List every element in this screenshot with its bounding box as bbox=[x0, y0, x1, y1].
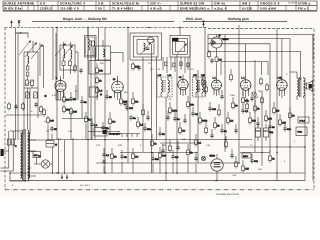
wire: V5 screen drop bbox=[261, 62, 263, 75]
volume potentiometer (black, boxed) bbox=[94, 128, 120, 137]
resistor R-lt3 bbox=[40, 105, 43, 114]
fuse Si1 bbox=[46, 141, 58, 148]
tube V1 ECH81 bbox=[55, 77, 66, 93]
wire: miscellaneous interconnects bbox=[56, 48, 290, 164]
FM tuner inner coil bbox=[144, 43, 146, 51]
V2 cathode network box bbox=[89, 87, 98, 97]
wire: speaker return bbox=[304, 95, 306, 181]
resistor R12 bbox=[132, 97, 139, 106]
wire: gang frame drop 3 bbox=[156, 57, 158, 140]
svg-text:230 V~: 230 V~ bbox=[150, 2, 162, 6]
resistor R41 bbox=[230, 73, 233, 82]
resistor R20 bbox=[214, 121, 221, 130]
wire: choke leads bbox=[103, 40, 123, 62]
title block extra bottom rule bbox=[3, 11, 317, 13]
mains switch box bbox=[296, 127, 307, 136]
svg-text:6 K: 6 K bbox=[40, 2, 46, 6]
chassis boundary dashed frame right side bbox=[313, 29, 315, 190]
svg-text:100: 100 bbox=[50, 119, 55, 122]
tube V2 EF89 bbox=[112, 78, 124, 94]
wire: AF return bbox=[96, 162, 239, 164]
svg-text:110-240 V 9: 110-240 V 9 bbox=[60, 7, 79, 11]
resistor R46 bbox=[205, 126, 208, 135]
capacitor C31 bbox=[102, 159, 105, 165]
svg-text:1M: 1M bbox=[218, 58, 221, 61]
wire: ratio det line bbox=[189, 41, 191, 152]
resistor R43 bbox=[169, 144, 172, 153]
wire: screen bus bbox=[47, 139, 252, 141]
dial lamp La1 bbox=[34, 155, 53, 169]
tube V6 EL84 bbox=[277, 76, 288, 91]
subtitle left: wave-band position note bbox=[63, 17, 107, 21]
resistor R47 bbox=[225, 140, 228, 149]
svg-text:220: 220 bbox=[252, 119, 257, 122]
capacitor C37 bbox=[234, 128, 237, 134]
capacitor C20 bbox=[220, 128, 227, 134]
dial assembly outline 2 bbox=[208, 39, 290, 60]
RF coil unit enclosure bbox=[85, 36, 97, 58]
wire: IF2 drop bbox=[176, 55, 178, 173]
capacitor C13 bbox=[123, 101, 126, 107]
voltage selector bbox=[33, 152, 41, 158]
capacitor C24 bbox=[283, 126, 291, 132]
mains suppression capacitor Ca bbox=[7, 131, 10, 168]
capacitor C-em bbox=[210, 58, 213, 64]
svg-text:1M: 1M bbox=[135, 155, 138, 158]
wire: gang frame drop 1 bbox=[142, 57, 144, 152]
pilot lamp La2 bbox=[201, 156, 205, 160]
svg-text:4 W a 1: 4 W a 1 bbox=[150, 7, 162, 11]
subtitle right underline bbox=[183, 20, 287, 22]
wire: group1 drop a bbox=[15, 28, 17, 141]
chassis boundary dashed frame top-right segment bbox=[208, 28, 314, 30]
resistor R51 bbox=[74, 64, 77, 73]
svg-text:1M: 1M bbox=[112, 120, 115, 123]
svg-text:50µ: 50µ bbox=[269, 131, 274, 134]
wire: output stage line bbox=[289, 60, 291, 173]
antenna coil unit enclosure bbox=[60, 45, 75, 70]
capacitor C34 bbox=[171, 154, 179, 160]
wire: feedback line bbox=[269, 62, 271, 152]
resistor R36 bbox=[261, 96, 264, 105]
svg-text:Stellung gem: Stellung gem bbox=[228, 17, 249, 21]
title block column dividers bbox=[38, 1, 296, 10]
resistor R28 bbox=[279, 118, 287, 127]
tuning gang trimmer arrow bbox=[177, 43, 187, 54]
band switch contacts group 1 bbox=[19, 40, 43, 59]
chassis boundary dashed frame top-left segment bbox=[5, 27, 28, 29]
chassis boundary dashed frame left side bbox=[4, 28, 6, 190]
svg-text:9 B: 9 B bbox=[98, 2, 104, 6]
svg-text:GROSS-S 9: GROSS-S 9 bbox=[260, 2, 280, 6]
wire: tone bus bbox=[120, 152, 198, 154]
resistor R30 bbox=[111, 152, 118, 161]
wire: heater bus right bbox=[240, 146, 305, 148]
wire: stubs to ground bus bbox=[48, 118, 196, 173]
capacitor C16 bbox=[158, 131, 165, 137]
comb wiring below gang bbox=[163, 57, 188, 73]
FM tuner trimmer arrow 1 bbox=[140, 42, 151, 55]
svg-text:Schaltbild Stand 10.53: Schaltbild Stand 10.53 bbox=[216, 193, 240, 196]
svg-text:Klangregler: Klangregler bbox=[109, 132, 121, 135]
svg-text:50: 50 bbox=[98, 7, 102, 11]
svg-text:2M: 2M bbox=[135, 100, 138, 103]
svg-text:300: 300 bbox=[162, 154, 167, 157]
resistor R8 bbox=[109, 117, 116, 126]
electrolytic capacitor C50 bbox=[263, 124, 273, 141]
chassis boundary dashed frame bottom bbox=[5, 189, 314, 191]
wire: left comp row link bbox=[6, 114, 42, 116]
capacitor C22 bbox=[256, 121, 259, 127]
capacitor C42 bbox=[161, 148, 164, 154]
tube V5 EABC80 bbox=[240, 76, 251, 91]
resistor R35 bbox=[269, 154, 276, 163]
dial assembly outline 5 bbox=[221, 62, 268, 75]
svg-text:100: 100 bbox=[268, 117, 273, 120]
svg-text:GW 4a: GW 4a bbox=[214, 2, 225, 6]
resistor R9 bbox=[47, 116, 55, 125]
shielding hatch below V5 bbox=[252, 91, 258, 99]
resistor R45 bbox=[246, 102, 249, 111]
junction dots bbox=[9, 118, 305, 182]
tube V7 EZ80 rectifier bbox=[210, 154, 224, 181]
oscillator trim resistor bbox=[26, 66, 29, 76]
svg-text:2M: 2M bbox=[276, 109, 279, 112]
svg-text:1M: 1M bbox=[230, 119, 233, 122]
wire: ground bus bbox=[10, 172, 305, 174]
tuning gang shield (solid black) bbox=[172, 38, 178, 42]
resistor R37 bbox=[132, 62, 140, 71]
svg-text:W 6 N 2 4a: W 6 N 2 4a bbox=[4, 7, 22, 11]
svg-text:93V: 93V bbox=[100, 62, 104, 65]
FM tuner valve circle bbox=[148, 37, 154, 43]
wire: cathode line bbox=[261, 96, 263, 166]
wire: gang top feed bbox=[179, 28, 181, 36]
wire: group1 drop b bbox=[17, 33, 19, 140]
electrolytic capacitor C51 bbox=[255, 124, 260, 141]
svg-text:6,3V: 6,3V bbox=[52, 94, 57, 97]
resistor R5 bbox=[96, 66, 104, 75]
capacitor C30 bbox=[102, 152, 110, 158]
RF coil L6 bbox=[88, 39, 89, 50]
capacitor C41 bbox=[220, 94, 223, 100]
trimmer pair below group1 bbox=[25, 92, 38, 98]
svg-text:KURZE ANTENNE: KURZE ANTENNE bbox=[4, 2, 34, 6]
wire: AF coupling line bbox=[238, 25, 240, 163]
heater arrows below bus bbox=[61, 174, 68, 180]
resistor R23 bbox=[242, 96, 250, 105]
svg-text:Tr: Tr bbox=[15, 145, 17, 148]
antenna terminal arrow 2 (ground) bbox=[18, 20, 21, 28]
wire: V1 grid link bbox=[56, 99, 76, 101]
svg-text:FM o 2: FM o 2 bbox=[298, 7, 309, 11]
resistor R19 bbox=[199, 116, 208, 125]
wire: mains leads bbox=[1, 151, 14, 181]
capacitor C48 bbox=[183, 118, 186, 124]
svg-text:100: 100 bbox=[212, 108, 217, 111]
svg-text:f=50 a AM: f=50 a AM bbox=[260, 7, 276, 11]
capacitor C19 bbox=[208, 106, 216, 112]
tube V4 EABC80 bbox=[212, 77, 222, 92]
resistor R40 bbox=[205, 85, 208, 94]
wire: EL84 grid line bbox=[254, 60, 256, 152]
svg-text:AM 2: AM 2 bbox=[242, 2, 251, 6]
resistor R18 bbox=[195, 138, 202, 147]
wire: AVC branch bbox=[62, 118, 88, 120]
resistor R16 bbox=[179, 126, 186, 135]
wire: V6 anode feed bbox=[281, 39, 283, 72]
capacitor C12 bbox=[125, 105, 133, 111]
title block row 1 text bbox=[4, 2, 311, 6]
resistor R27 bbox=[273, 106, 280, 115]
svg-text:1M: 1M bbox=[66, 98, 69, 101]
mains suppression capacitor Cb bbox=[12, 131, 15, 168]
capacitor C11 bbox=[50, 126, 57, 132]
wire: volume pot link bbox=[88, 131, 120, 133]
tuning gang enclosure (nested) bbox=[170, 35, 190, 57]
capacitor C21 bbox=[241, 108, 249, 114]
svg-text:Tl. B 4 44301: Tl. B 4 44301 bbox=[112, 7, 133, 11]
capacitor C-lt2 bbox=[34, 102, 37, 108]
wire: group3 drops bbox=[88, 28, 93, 61]
oscillator coil screen box bbox=[24, 52, 38, 88]
resistor R-em2 bbox=[208, 50, 211, 59]
mains entry black terminal bbox=[1, 149, 4, 156]
output transformer Tr2 bbox=[290, 72, 305, 100]
resistor R-lt1 bbox=[8, 102, 11, 111]
svg-text:Ers. Teil 4: Ers. Teil 4 bbox=[80, 184, 90, 187]
svg-text:573W a: 573W a bbox=[298, 2, 311, 6]
wire: AF segment bbox=[160, 142, 200, 144]
capacitor C9 bbox=[90, 122, 98, 128]
tube V3 EF89 bbox=[178, 76, 188, 91]
wire: mid vertical b bbox=[94, 48, 96, 140]
svg-text:SUPER 53 GW: SUPER 53 GW bbox=[180, 2, 205, 6]
capacitor C8 bbox=[80, 99, 87, 105]
loudspeaker bbox=[304, 81, 313, 92]
resistor R17 bbox=[187, 100, 195, 109]
svg-text:EINE MESSUNG o.: EINE MESSUNG o. bbox=[180, 7, 210, 11]
tube EM80 magic eye bbox=[211, 34, 229, 55]
resistor R34 bbox=[242, 164, 250, 173]
capacitor C15 bbox=[143, 126, 151, 132]
junction blob near V2 bbox=[100, 93, 102, 95]
dial assembly outline 1 bbox=[208, 35, 313, 61]
svg-text:o.Sig. 4: o.Sig. 4 bbox=[214, 7, 227, 11]
wire: transformer secondary drops bbox=[28, 138, 74, 173]
svg-text:130: 130 bbox=[282, 121, 287, 124]
wire: dial frame drop bbox=[224, 35, 226, 153]
wire: AVC/top distribution bus bbox=[28, 27, 208, 29]
svg-text:85V: 85V bbox=[124, 91, 128, 94]
svg-text:Pfeil. Gem.: Pfeil. Gem. bbox=[186, 17, 203, 21]
mixer input screen box bbox=[89, 61, 111, 75]
tone switch contact row bbox=[120, 134, 140, 137]
padder capacitors row bbox=[25, 80, 34, 86]
wire: osc section drop bbox=[56, 28, 58, 49]
svg-text:250V: 250V bbox=[258, 90, 264, 93]
resistor R44 bbox=[235, 160, 238, 169]
wire: detector line bbox=[165, 97, 167, 181]
antenna terminal arrow 1 bbox=[10, 20, 12, 28]
svg-text:300k: 300k bbox=[202, 119, 208, 122]
svg-text:245V: 245V bbox=[230, 94, 236, 97]
svg-text:SCHALTUNG 4: SCHALTUNG 4 bbox=[60, 2, 85, 6]
svg-text:100: 100 bbox=[129, 107, 134, 110]
wire: IF1 line bbox=[127, 28, 129, 164]
capacitor C18 bbox=[191, 111, 198, 117]
resistor R32 bbox=[159, 151, 167, 160]
subtitle left underline bbox=[32, 20, 174, 22]
corner part number bbox=[288, 1, 298, 4]
wire: EM80 stem bbox=[204, 28, 206, 97]
IF transformer Fi1 bbox=[157, 74, 172, 97]
resistor R48 bbox=[218, 108, 221, 117]
dial assembly outline 3 bbox=[208, 44, 270, 62]
svg-text:100V: 100V bbox=[196, 88, 202, 91]
resistor R4 bbox=[85, 115, 92, 124]
svg-text:EM80: EM80 bbox=[223, 38, 230, 41]
svg-text:50n: 50n bbox=[155, 158, 160, 161]
capacitor C49 bbox=[210, 133, 213, 139]
mains fuse holder box bbox=[298, 117, 309, 123]
wire: group1 internals bbox=[28, 41, 44, 88]
antenna coil L5 bbox=[71, 50, 72, 59]
resistor R14 bbox=[151, 139, 158, 148]
capacitor C-lt1 bbox=[14, 104, 17, 110]
resistor R2 bbox=[63, 105, 71, 114]
resistor R39 bbox=[202, 78, 205, 87]
resistor R1 bbox=[63, 95, 70, 104]
svg-text:220k: 220k bbox=[172, 109, 178, 112]
resistor R21 bbox=[227, 116, 234, 125]
resistor R29 bbox=[289, 111, 296, 120]
wire: group1 lower drops bbox=[24, 88, 38, 134]
resistor R7 bbox=[96, 86, 103, 95]
svg-text:10n: 10n bbox=[287, 128, 292, 131]
svg-text:44 301-1: 44 301-1 bbox=[288, 1, 298, 4]
wire: V5 anode feed bbox=[245, 44, 247, 74]
wire: osc coil top bbox=[16, 32, 29, 34]
resistor R3 bbox=[70, 107, 78, 116]
capacitor C40 bbox=[146, 115, 149, 121]
dial pointer arrow at top of EM tube lead bbox=[202, 21, 204, 28]
FM tuner caps bbox=[146, 48, 149, 50]
PSU label box bbox=[242, 153, 251, 158]
RF coil trim bbox=[92, 41, 95, 46]
svg-text:1M: 1M bbox=[182, 129, 185, 132]
resistor R-lt2 bbox=[22, 102, 25, 111]
resistor R33 bbox=[187, 148, 194, 157]
wire: tube pin connections bbox=[58, 72, 285, 100]
wire: mid vertical c bbox=[98, 28, 100, 61]
subtitle right: dial position note bbox=[186, 17, 249, 21]
title block row 2 tick dividers bbox=[10, 5, 308, 10]
wire: HT return bus bbox=[10, 180, 305, 182]
svg-text:EZ80: EZ80 bbox=[210, 155, 216, 158]
antenna trim caps bbox=[62, 61, 72, 66]
capacitor C14 bbox=[129, 115, 136, 121]
power transformer Tr1 bbox=[10, 129, 36, 182]
wire: AVC line drop bbox=[104, 28, 106, 174]
resistor R11 bbox=[120, 97, 128, 106]
capacitor C23 bbox=[268, 124, 275, 130]
capacitor C17 bbox=[173, 116, 180, 122]
capacitor C32 bbox=[120, 154, 127, 160]
wire: EM80 stem to triode bbox=[216, 64, 218, 79]
capacitor C44 bbox=[230, 153, 233, 159]
oscillator coil L1 bbox=[28, 56, 29, 64]
FM tuner unit enclosure (nested) bbox=[130, 33, 162, 60]
junction dots on top bus bbox=[56, 27, 180, 28]
dial assembly outline 4 bbox=[208, 52, 301, 81]
measurement annotations bbox=[12, 62, 296, 187]
capacitor C35 bbox=[194, 156, 197, 162]
svg-text:220: 220 bbox=[73, 110, 78, 113]
resistor R49 bbox=[260, 77, 263, 86]
resistor R25 bbox=[254, 104, 261, 113]
wire: mid vertical a bbox=[90, 40, 92, 140]
capacitor C39 bbox=[105, 94, 112, 100]
wire: audio line bbox=[197, 70, 199, 163]
resistor R13 bbox=[137, 120, 144, 129]
title block table frame bbox=[3, 1, 317, 10]
svg-text:Netz: Netz bbox=[298, 131, 303, 134]
capacitor C36 bbox=[250, 158, 258, 164]
wire: group2 verticals bbox=[53, 28, 78, 101]
wire: mixer grid line bbox=[87, 28, 89, 174]
wire: right frame inner bbox=[312, 35, 314, 181]
wire: gang frame drop 2 bbox=[151, 44, 153, 173]
svg-text:U=220: U=220 bbox=[242, 7, 252, 11]
wire: PSU link bbox=[240, 152, 270, 154]
resistor R15 bbox=[169, 106, 178, 115]
resistor R6 bbox=[96, 76, 103, 85]
resistor R31 bbox=[132, 152, 139, 161]
resistor R38 bbox=[142, 108, 145, 117]
caption under bottom frame bbox=[216, 193, 240, 196]
capacitor C7 bbox=[69, 96, 76, 102]
resistor R50 bbox=[266, 83, 269, 92]
antenna coil L4 bbox=[64, 49, 65, 58]
svg-text:SCHALTBILD Nr: SCHALTBILD Nr bbox=[112, 2, 140, 6]
capacitor C10 bbox=[101, 125, 109, 131]
capacitor C43 bbox=[176, 145, 179, 151]
capacitor C47 bbox=[166, 115, 169, 121]
capacitor C46 bbox=[250, 96, 253, 102]
RF choke box bbox=[96, 46, 111, 60]
capacitor C33 bbox=[151, 156, 159, 162]
svg-text:Beiger. Gem. - , Stellung KB: Beiger. Gem. - , Stellung KB bbox=[63, 17, 107, 21]
title block row 2 text bbox=[4, 7, 309, 11]
svg-text:Si 0,8: Si 0,8 bbox=[300, 120, 306, 123]
resistor R-em bbox=[215, 55, 222, 64]
svg-text:25n: 25n bbox=[147, 128, 152, 131]
svg-text:10n: 10n bbox=[254, 160, 259, 163]
gang comb trimmers bbox=[165, 62, 190, 67]
junction blob left bbox=[44, 95, 46, 97]
resistor R10 bbox=[43, 108, 46, 117]
resistor R24 bbox=[249, 116, 257, 125]
capacitor C38 bbox=[137, 65, 140, 71]
resistor R22 bbox=[232, 101, 239, 110]
capacitor C52 bbox=[79, 68, 82, 74]
svg-text:250V: 250V bbox=[243, 155, 249, 158]
IF transformer Fi2 bbox=[193, 74, 206, 97]
svg-text:120: 120 bbox=[245, 167, 250, 170]
wire: B+ rail bbox=[276, 29, 278, 181]
resistor R26 bbox=[265, 114, 273, 123]
